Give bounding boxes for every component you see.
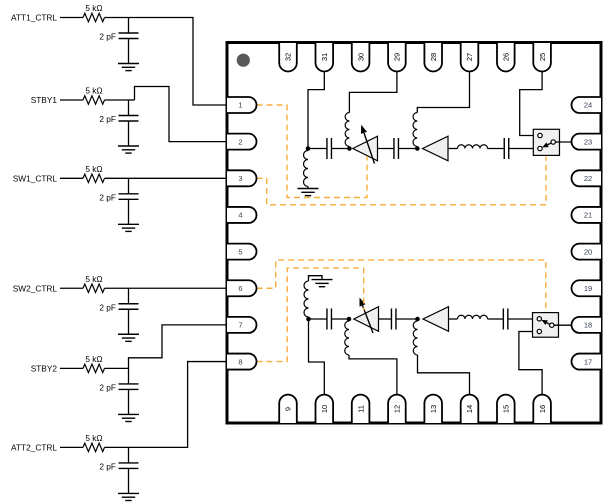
svg-text:5 kΩ: 5 kΩ (85, 86, 102, 96)
svg-text:24: 24 (584, 101, 592, 110)
svg-text:22: 22 (584, 174, 592, 183)
svg-text:26: 26 (502, 53, 511, 61)
svg-text:2 pF: 2 pF (99, 192, 116, 202)
svg-text:2 pF: 2 pF (99, 382, 116, 392)
svg-text:10: 10 (320, 405, 329, 413)
svg-text:2 pF: 2 pF (99, 461, 116, 471)
svg-text:5 kΩ: 5 kΩ (85, 3, 102, 13)
svg-text:2: 2 (238, 137, 242, 146)
svg-text:STBY2: STBY2 (31, 363, 58, 373)
svg-text:5 kΩ: 5 kΩ (85, 433, 102, 443)
svg-text:5 kΩ: 5 kΩ (85, 164, 102, 174)
svg-text:27: 27 (465, 53, 474, 61)
svg-text:21: 21 (584, 211, 592, 220)
svg-text:2 pF: 2 pF (99, 114, 116, 124)
svg-text:2 pF: 2 pF (99, 32, 116, 42)
svg-text:2 pF: 2 pF (99, 302, 116, 312)
svg-text:16: 16 (538, 405, 547, 413)
svg-text:13: 13 (429, 405, 438, 413)
svg-text:ATT2_CTRL: ATT2_CTRL (11, 442, 57, 452)
svg-text:17: 17 (584, 357, 592, 366)
svg-text:8: 8 (238, 357, 242, 366)
svg-text:5: 5 (238, 247, 242, 256)
svg-text:ATT1_CTRL: ATT1_CTRL (11, 13, 57, 23)
svg-text:20: 20 (584, 247, 592, 256)
svg-text:4: 4 (238, 211, 242, 220)
svg-text:SW1_CTRL: SW1_CTRL (13, 173, 58, 183)
svg-text:1: 1 (238, 101, 242, 110)
svg-text:6: 6 (238, 284, 242, 293)
svg-text:18: 18 (584, 321, 592, 330)
svg-text:23: 23 (584, 137, 592, 146)
svg-text:5 kΩ: 5 kΩ (85, 354, 102, 364)
svg-text:12: 12 (393, 405, 402, 413)
svg-text:30: 30 (356, 53, 365, 61)
svg-text:3: 3 (238, 174, 242, 183)
svg-text:32: 32 (284, 53, 293, 61)
svg-text:19: 19 (584, 284, 592, 293)
svg-text:7: 7 (238, 321, 242, 330)
svg-text:28: 28 (429, 53, 438, 61)
svg-text:31: 31 (320, 53, 329, 61)
svg-text:14: 14 (465, 405, 474, 413)
svg-text:SW2_CTRL: SW2_CTRL (13, 283, 58, 293)
svg-text:15: 15 (502, 405, 511, 413)
svg-text:29: 29 (393, 53, 402, 61)
svg-text:11: 11 (356, 405, 365, 413)
svg-text:STBY1: STBY1 (31, 95, 58, 105)
svg-text:9: 9 (284, 407, 293, 411)
svg-text:25: 25 (538, 53, 547, 61)
svg-text:5 kΩ: 5 kΩ (85, 274, 102, 284)
